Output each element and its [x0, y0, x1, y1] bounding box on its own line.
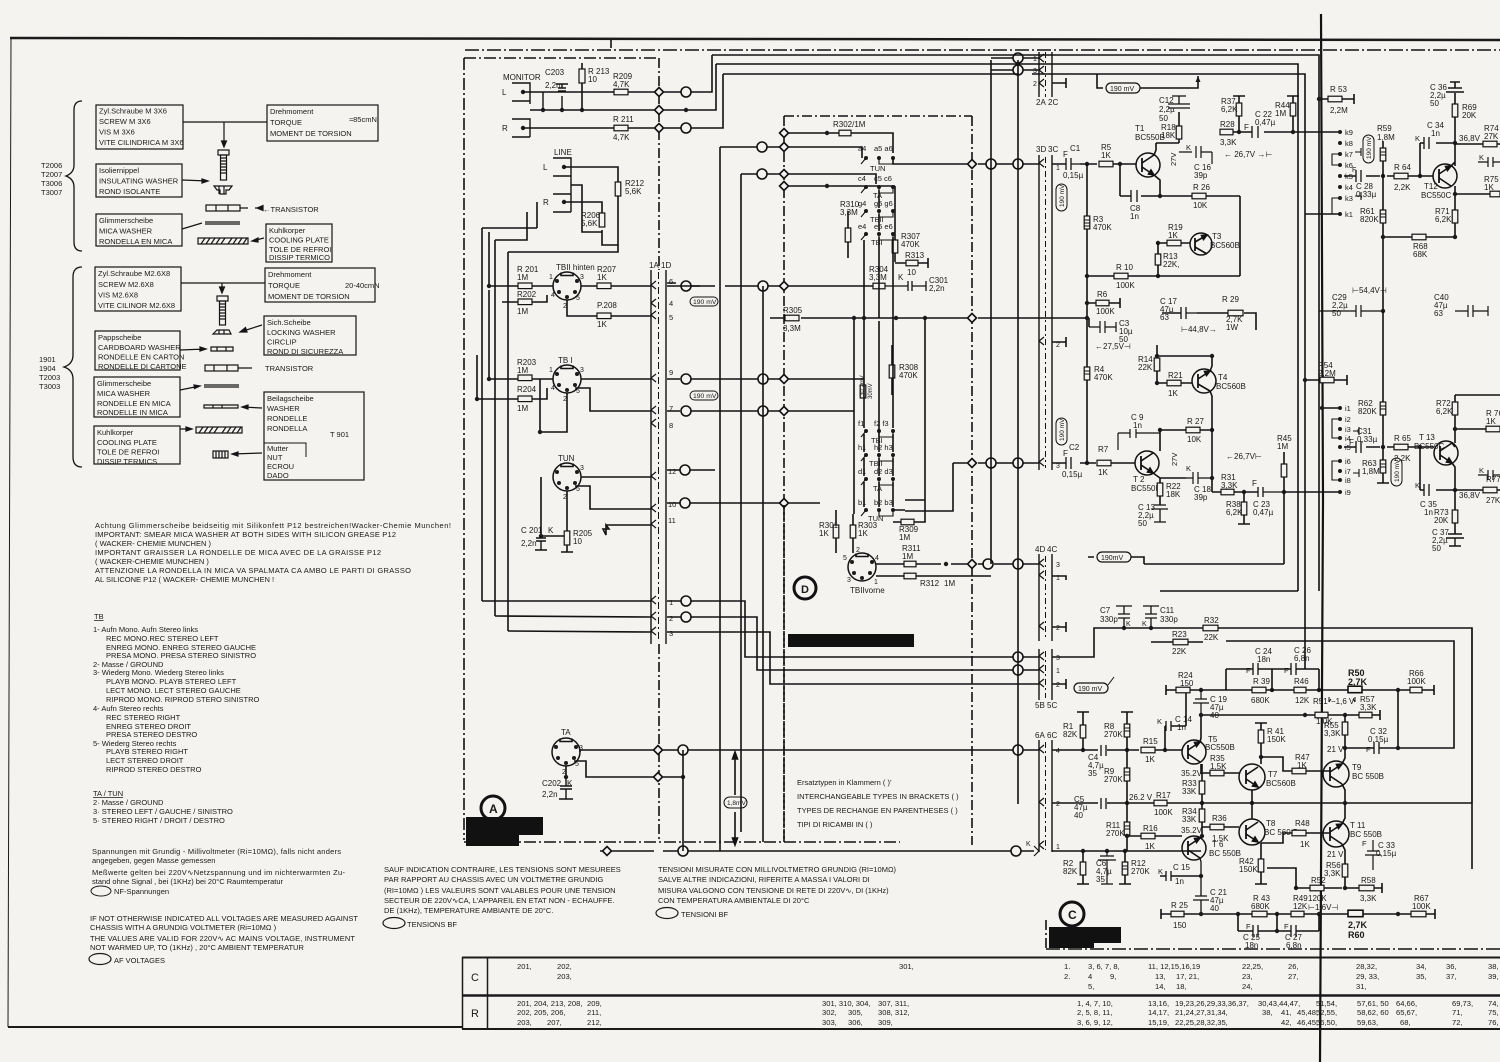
connector 2A-2C	[1033, 52, 1058, 107]
transistor T7	[1239, 764, 1296, 790]
resistor R13	[1155, 254, 1161, 265]
svg-text:⊢54,4V⊣: ⊢54,4V⊣	[1352, 286, 1387, 295]
svg-text:26,: 26,	[1288, 962, 1299, 971]
svg-text:3,3K: 3,3K	[1220, 138, 1237, 147]
wire T4 collector column	[1157, 356, 1212, 421]
svg-text:35: 35	[1096, 875, 1105, 884]
resistor R58	[1359, 885, 1374, 891]
resistor R4 striped	[1084, 367, 1090, 380]
resistor R303	[850, 525, 856, 538]
resistor R7	[1097, 460, 1111, 466]
svg-text:2: 2	[669, 614, 673, 623]
capacitor C11	[1143, 606, 1159, 628]
svg-text:1M: 1M	[1275, 109, 1286, 118]
washer symbol 2	[204, 405, 238, 408]
arrow transistor	[255, 206, 263, 211]
svg-text:R: R	[543, 198, 549, 207]
svg-text:MICA WASHER: MICA WASHER	[97, 389, 151, 398]
T5 collector wire	[1200, 715, 1201, 742]
svg-text:T12: T12	[1424, 182, 1438, 191]
test circle	[1013, 458, 1023, 468]
resistor R201	[518, 283, 532, 289]
legend box kuhlkorper 2	[94, 426, 180, 464]
svg-text:K: K	[1186, 464, 1191, 473]
svg-text:BC550C: BC550C	[1414, 442, 1444, 451]
svg-text:T7: T7	[1268, 770, 1278, 779]
capacitor C7	[1116, 606, 1132, 628]
svg-text:DADO: DADO	[267, 471, 289, 480]
svg-text:18n: 18n	[1245, 941, 1258, 950]
screw symbol 1	[218, 150, 229, 180]
svg-text:ECROU: ECROU	[267, 462, 294, 471]
wire k5 row	[1344, 175, 1433, 177]
resistor R310	[845, 228, 851, 242]
svg-text:TRANSISTOR: TRANSISTOR	[265, 364, 314, 373]
vertical bus x1018	[1017, 60, 1019, 804]
svg-text:Zyl.Schraube M2.6X8: Zyl.Schraube M2.6X8	[98, 269, 170, 278]
svg-text:21,24,27,31,34,: 21,24,27,31,34,	[1175, 1008, 1228, 1017]
svg-text:18,: 18,	[1176, 982, 1187, 991]
switch matrix upper	[858, 144, 895, 247]
svg-text:BC560B: BC560B	[1210, 241, 1240, 250]
arrow	[182, 179, 208, 183]
svg-text:120K: 120K	[1308, 894, 1327, 903]
R54	[1320, 377, 1334, 383]
svg-text:ATTENZIONE LA RONDELLA IN: ATTENZIONE LA RONDELLA IN MICA VA SPALMA…	[95, 566, 411, 575]
svg-text:INTERCHANGEABLE TYPES IN BR: INTERCHANGEABLE TYPES IN BRACKETS ( )	[797, 792, 959, 801]
svg-text:1K: 1K	[1168, 231, 1178, 240]
svg-text:F: F	[1252, 479, 1257, 488]
svg-text:50: 50	[1432, 544, 1441, 553]
svg-text:BC 550B: BC 550B	[1352, 772, 1384, 781]
svg-text:50: 50	[1430, 99, 1439, 108]
svg-text:T2007: T2007	[41, 170, 62, 179]
svg-text:k8: k8	[1345, 139, 1353, 148]
svg-text:65,67,: 65,67,	[1396, 1008, 1417, 1017]
svg-text:35,: 35,	[1416, 972, 1427, 981]
svg-text:R 25: R 25	[1171, 901, 1188, 910]
svg-text:K: K	[1142, 621, 1147, 628]
svg-text:F: F	[1366, 745, 1371, 754]
resistor R51	[1315, 712, 1328, 718]
svg-text:BC 550B: BC 550B	[1209, 849, 1241, 858]
svg-text:K: K	[1157, 717, 1162, 726]
diamond	[655, 88, 664, 97]
T6 emitter column C21	[1193, 858, 1209, 914]
arrow	[180, 347, 206, 351]
svg-text:F: F	[1284, 922, 1289, 931]
svg-text:301, 310, 304,: 301, 310, 304,	[822, 999, 871, 1008]
svg-text:22K,: 22K,	[1163, 260, 1179, 269]
svg-text:10: 10	[588, 75, 597, 84]
wire TA pins	[566, 750, 683, 777]
junction	[1085, 162, 1089, 166]
svg-text:c4: c4	[858, 174, 866, 183]
svg-text:R16: R16	[1143, 824, 1158, 833]
svg-text:TENSIONI BF: TENSIONI BF	[681, 910, 729, 919]
svg-text:1M: 1M	[1277, 442, 1288, 451]
arrow	[242, 405, 262, 409]
wire	[183, 122, 267, 147]
svg-text:22,25,: 22,25,	[1242, 962, 1263, 971]
wire 190mv bracket	[1088, 557, 1144, 564]
test circle	[1013, 665, 1023, 675]
resistor R2	[1080, 862, 1086, 875]
wire R23 row	[1151, 641, 1203, 643]
svg-text:30,43,44,47,: 30,43,44,47,	[1258, 999, 1300, 1008]
k contacts column	[1305, 128, 1361, 219]
oval 190mV vert2	[1056, 418, 1067, 445]
test circle	[681, 374, 691, 384]
wire y318 R305	[770, 318, 1089, 327]
svg-text:−1,6 V: −1,6 V	[1331, 697, 1355, 706]
socket TBI	[549, 356, 584, 403]
svg-text:1K: 1K	[1484, 183, 1494, 192]
svg-text:22K: 22K	[1138, 363, 1153, 372]
svg-text:h1: h1	[858, 443, 866, 452]
svg-text:28,32,: 28,32,	[1356, 962, 1377, 971]
svg-text:RONDELLE EN MICA: RONDELLE EN MICA	[97, 399, 171, 408]
svg-text:F: F	[1063, 150, 1068, 159]
C32 row	[1345, 690, 1398, 748]
cooling plate hatched 2	[196, 427, 242, 433]
resistor R212	[615, 182, 621, 196]
wire	[489, 290, 553, 379]
vertical bus x763	[762, 286, 764, 842]
svg-text:K: K	[1026, 841, 1031, 848]
svg-text:201, 204, 213, 208,: 201, 204, 213, 208,	[517, 999, 582, 1008]
svg-text:64,66,: 64,66,	[1396, 999, 1417, 1008]
resistor R68	[1412, 234, 1426, 240]
transistor symbol 2	[205, 365, 238, 371]
svg-text:stand ohne Signal , bei (1K: stand ohne Signal , bei (1KHz) bei 20°C …	[92, 877, 284, 886]
svg-text:MISURA VALGONO CON TENSIONE: MISURA VALGONO CON TENSIONE DI RETE DI 2…	[658, 886, 889, 895]
wire y803	[1202, 802, 1472, 804]
arrow	[180, 427, 192, 431]
svg-text:C11: C11	[1160, 606, 1175, 615]
svg-text:41,: 41,	[1281, 1008, 1292, 1017]
svg-text:1M: 1M	[517, 404, 528, 413]
capacitor C31	[1356, 441, 1361, 453]
resistor R53	[1328, 96, 1342, 102]
svg-text:68K: 68K	[1413, 250, 1428, 259]
svg-text:1: 1	[1033, 56, 1037, 63]
wire y750 input right	[1052, 749, 1182, 751]
svg-text:38,: 38,	[1262, 1008, 1273, 1017]
svg-text:207,: 207,	[547, 1018, 562, 1027]
capacitor C37	[1446, 534, 1464, 546]
svg-text:F: F	[1244, 123, 1249, 132]
svg-text:1, 4, 7, 10,: 1, 4, 7, 10,	[1077, 999, 1113, 1008]
brace T2006 group	[66, 101, 82, 251]
nested loop wires left	[482, 202, 537, 601]
svg-text:305,: 305,	[848, 1008, 863, 1017]
svg-text:8: 8	[669, 421, 673, 430]
svg-text:21 V: 21 V	[1327, 850, 1344, 859]
svg-text:BC550B: BC550B	[1131, 484, 1161, 493]
svg-text:Drehmoment: Drehmoment	[268, 270, 312, 279]
capacitor C203	[543, 84, 568, 110]
svg-text:14,17,: 14,17,	[1148, 1008, 1169, 1017]
resistor R73	[1452, 510, 1458, 523]
svg-text:VITE CILINOR M2.6X8: VITE CILINOR M2.6X8	[98, 301, 175, 310]
svg-text:74,: 74,	[1488, 999, 1499, 1008]
svg-text:190 mV: 190 mV	[1059, 184, 1066, 207]
svg-text:K: K	[1158, 867, 1163, 876]
svg-text:i6: i6	[1345, 457, 1351, 466]
svg-text:1K: 1K	[1101, 151, 1111, 160]
diamond	[780, 499, 789, 508]
svg-text:6,2K: 6,2K	[1435, 215, 1452, 224]
transistor T9	[1323, 761, 1384, 787]
svg-text:190 mV: 190 mV	[1078, 686, 1102, 693]
svg-text:Drehmoment: Drehmoment	[270, 107, 314, 116]
svg-text:58,62, 60: 58,62, 60	[1357, 1008, 1389, 1017]
wire 2A pin2 T	[1052, 78, 1066, 88]
svg-text:RONDELLE IN MICA: RONDELLE IN MICA	[97, 408, 168, 417]
test circle	[680, 465, 690, 475]
wire 4D pin2 T	[1052, 622, 1066, 632]
test circle	[986, 159, 996, 169]
svg-text:4: 4	[1056, 748, 1060, 755]
svg-text:1n: 1n	[1175, 877, 1184, 886]
svg-text:301,: 301,	[899, 962, 914, 971]
oval 190mV	[1097, 552, 1131, 562]
svg-text:F: F	[1246, 666, 1251, 675]
svg-text:T4: T4	[1218, 373, 1228, 382]
svg-text:150: 150	[1173, 921, 1187, 930]
svg-text:g4: g4	[858, 199, 866, 208]
svg-text:Ersatztypen in Klammern ( ): Ersatztypen in Klammern ( )’	[797, 778, 892, 787]
svg-text:190 mV: 190 mV	[693, 299, 717, 306]
svg-text:R 211: R 211	[613, 115, 634, 124]
svg-text:470K: 470K	[899, 371, 918, 380]
svg-text:12K: 12K	[1293, 902, 1308, 911]
svg-text:Glimmerscheibe: Glimmerscheibe	[99, 216, 153, 225]
resistor R305	[785, 315, 799, 321]
svg-text:R60: R60	[1348, 930, 1365, 940]
svg-text:TOLE DE REFROI: TOLE DE REFROI	[97, 448, 159, 457]
svg-text:T 13: T 13	[1419, 433, 1435, 442]
oval 1.8mV	[724, 797, 747, 808]
svg-text:150K: 150K	[1239, 865, 1258, 874]
svg-text:C202: C202	[542, 779, 562, 788]
bottom wire y914	[1161, 909, 1435, 919]
svg-text:35.2V: 35.2V	[1181, 769, 1203, 778]
svg-text:( WACKER- CHEMIE MUNCHEN ): ( WACKER- CHEMIE MUNCHEN )	[95, 539, 211, 548]
svg-text:29, 33,: 29, 33,	[1356, 972, 1379, 981]
resistor R311	[904, 561, 916, 567]
svg-text:36,8V: 36,8V	[1459, 491, 1481, 500]
svg-text:1.: 1.	[1064, 962, 1070, 971]
svg-text:3: 3	[1033, 68, 1037, 75]
svg-text:2,7K: 2,7K	[1348, 920, 1368, 930]
svg-text:TBII hinten: TBII hinten	[556, 263, 595, 272]
svg-text:K: K	[1479, 466, 1484, 475]
svg-text:R312: R312	[920, 579, 940, 588]
wire k9 row	[1233, 131, 1340, 133]
node 36.8V wire R74	[1455, 144, 1500, 145]
resistor R22	[1157, 483, 1163, 496]
svg-text:5· STEREO RIGHT / DROIT / D: 5· STEREO RIGHT / DROIT / DESTRO	[93, 816, 225, 825]
svg-text:MONITOR: MONITOR	[503, 73, 541, 82]
wire b3 to y500	[893, 500, 925, 510]
svg-text:L: L	[502, 88, 507, 97]
svg-text:51,54,: 51,54,	[1316, 999, 1337, 1008]
resistor R52	[1310, 885, 1324, 891]
svg-text:202, 205, 206,: 202, 205, 206,	[517, 1008, 566, 1017]
svg-text:4: 4	[551, 385, 555, 392]
svg-text:3: 3	[1056, 562, 1060, 569]
svg-text:36,: 36,	[1446, 962, 1457, 971]
resistor R213	[579, 69, 585, 83]
svg-text:4: 4	[1088, 972, 1092, 981]
sub wire y931 C25 C27	[1238, 914, 1319, 931]
svg-text:18n: 18n	[1257, 655, 1270, 664]
oval 190mV vert k	[1363, 135, 1374, 163]
svg-text:T3006: T3006	[41, 179, 62, 188]
resistor R3 striped	[1084, 216, 1090, 229]
svg-text:2,7K: 2,7K	[1348, 677, 1368, 687]
R13 column	[1157, 243, 1159, 276]
svg-text:AL SILICONE P12 ( WACKER-: AL SILICONE P12 ( WACKER- CHEMIE MUNCHEN…	[95, 575, 274, 584]
wire TUN pin2	[541, 477, 567, 536]
svg-text:18K: 18K	[1166, 490, 1181, 499]
svg-text:39p: 39p	[1194, 493, 1208, 502]
svg-text:3,3K: 3,3K	[1360, 894, 1377, 903]
svg-text:R7: R7	[1098, 445, 1109, 454]
svg-text:20K: 20K	[1462, 111, 1477, 120]
svg-text:DISSIP TERMICO: DISSIP TERMICO	[269, 253, 330, 262]
svg-text:P.208: P.208	[597, 301, 617, 310]
wire x1472 col	[1471, 628, 1473, 803]
brace 1901 group	[64, 267, 82, 467]
K cap right edge 2	[1478, 470, 1500, 480]
svg-text:270K: 270K	[1104, 730, 1123, 739]
svg-text:13,16,: 13,16,	[1148, 999, 1169, 1008]
test circle	[1013, 745, 1023, 755]
svg-text:2: 2	[1033, 81, 1037, 88]
svg-text:COOLING PLATE: COOLING PLATE	[97, 438, 157, 447]
resistor R312	[904, 573, 916, 579]
svg-text:4,7K: 4,7K	[613, 133, 630, 142]
main wire y690	[1226, 685, 1434, 695]
svg-text:CIRCLIP: CIRCLIP	[267, 338, 297, 347]
svg-text:33K: 33K	[1182, 787, 1197, 796]
svg-text:F: F	[1063, 449, 1068, 458]
svg-text:K: K	[898, 273, 904, 282]
svg-text:VITE CILINDRICA M 3X6: VITE CILINDRICA M 3X6	[99, 138, 184, 147]
R48 row	[1292, 830, 1306, 836]
svg-text:1: 1	[549, 367, 553, 374]
wire pin6 y286	[667, 285, 873, 287]
resistor R62 striped	[1380, 402, 1386, 415]
svg-text:3,3K: 3,3K	[1221, 481, 1238, 490]
svg-text:C203: C203	[545, 68, 565, 77]
MONITOR connector	[512, 83, 530, 137]
svg-text:6,2K: 6,2K	[1436, 407, 1453, 416]
svg-text:20K: 20K	[1434, 516, 1449, 525]
test circle	[678, 846, 688, 856]
svg-text:T2006: T2006	[41, 161, 62, 170]
R16 row	[1141, 833, 1155, 839]
svg-text:71,: 71,	[1452, 1008, 1463, 1017]
wire y463 to 3D pin3	[905, 463, 1039, 511]
svg-text:4,7K: 4,7K	[613, 80, 630, 89]
svg-text:3,3K: 3,3K	[1360, 703, 1377, 712]
svg-text:COOLING PLATE: COOLING PLATE	[269, 236, 329, 245]
svg-text:1: 1	[874, 579, 878, 586]
svg-text:22K: 22K	[1172, 647, 1187, 656]
resistor R43	[1252, 911, 1267, 917]
resistor R72	[1452, 402, 1458, 415]
svg-text:Mutter: Mutter	[267, 444, 289, 453]
svg-text:2A: 2A	[1036, 98, 1046, 107]
svg-text:100K: 100K	[1412, 902, 1431, 911]
svg-text:38,: 38,	[1488, 962, 1499, 971]
circle D	[794, 577, 816, 599]
svg-text:35: 35	[1088, 769, 1097, 778]
svg-text:1: 1	[549, 274, 553, 281]
svg-text:T1: T1	[1135, 124, 1145, 133]
resistor R63 striped	[1380, 460, 1386, 473]
arrow to cooling box	[252, 238, 264, 242]
svg-text:820K: 820K	[1360, 215, 1379, 224]
test circle	[757, 142, 767, 152]
svg-text:R36: R36	[1212, 814, 1227, 823]
top dash-dot rule	[465, 49, 1500, 51]
svg-text:TA: TA	[561, 728, 571, 737]
transistor T3	[1190, 232, 1240, 255]
C17 R29 row	[1162, 313, 1256, 330]
capacitor C28	[1356, 170, 1361, 182]
svg-text:F: F	[1362, 839, 1367, 848]
svg-text:R302/1M: R302/1M	[833, 120, 866, 129]
bottom bus y851	[600, 850, 1034, 852]
K arrow	[1034, 846, 1039, 856]
svg-text:SALVE ALTRE INDICAZIONI, RIF: SALVE ALTRE INDICAZIONI, RIFERITE A MASS…	[658, 875, 870, 884]
svg-text:C12: C12	[1159, 96, 1174, 105]
svg-text:⊢1,6V⊣: ⊢1,6V⊣	[1308, 903, 1338, 912]
svg-text:A: A	[489, 802, 498, 816]
svg-text:2C: 2C	[1048, 98, 1058, 107]
svg-text:100K: 100K	[1116, 281, 1135, 290]
svg-text:31,: 31,	[1356, 982, 1367, 991]
svg-text:ROND ISOLANTE: ROND ISOLANTE	[99, 187, 160, 196]
svg-text:3: 3	[1056, 655, 1060, 662]
T1 collector up to C12 R18	[1154, 112, 1179, 155]
36.8V node2	[1455, 489, 1500, 491]
test circle	[1011, 846, 1021, 856]
svg-text:14,: 14,	[1155, 982, 1166, 991]
resistor R21	[1167, 380, 1181, 386]
oval 190mV vert i	[1391, 458, 1402, 486]
diamond	[780, 407, 789, 416]
transistor T5	[1182, 735, 1235, 764]
svg-text:3,3M: 3,3M	[783, 324, 801, 333]
svg-text:RONDELLE: RONDELLE	[267, 414, 307, 423]
legend box torque 1	[267, 105, 378, 141]
resistor R1	[1080, 725, 1086, 738]
wire y715 R51 R57	[1201, 710, 1380, 720]
svg-text:5C: 5C	[1047, 701, 1057, 710]
svg-text:7: 7	[669, 404, 673, 413]
R42 column	[1258, 859, 1264, 872]
test circle	[681, 596, 691, 606]
svg-text:4: 4	[669, 299, 673, 308]
svg-text:5: 5	[843, 555, 847, 562]
wire column x864	[863, 240, 865, 507]
